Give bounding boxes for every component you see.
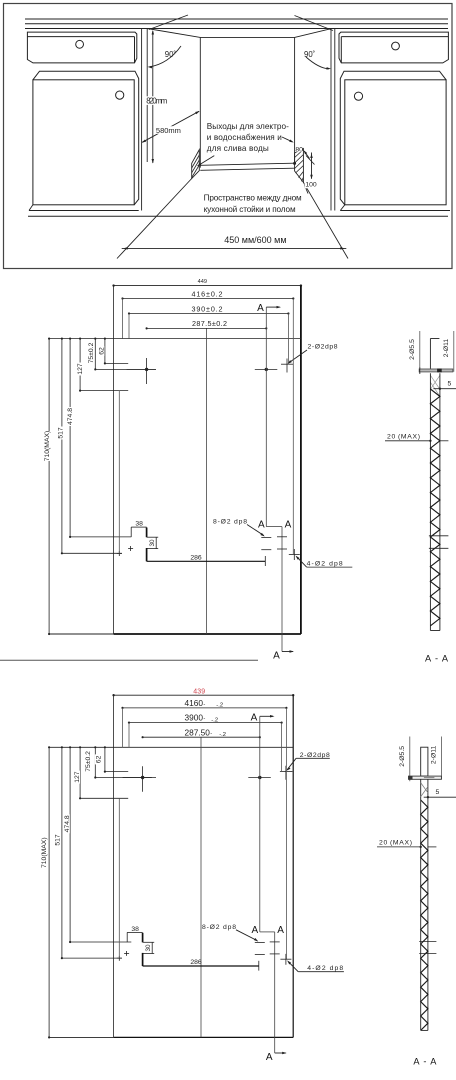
mid leader 4-Ø2dp8 bbox=[297, 557, 307, 568]
left cabinet drawer slab outline bbox=[27, 32, 136, 63]
mid rotated dim label 127 bbox=[76, 363, 83, 376]
bot ext line 416 left bbox=[122, 708, 124, 747]
bot A-A zigzag cross-section hatch bbox=[421, 800, 428, 1030]
svg-text:A: A bbox=[285, 520, 292, 531]
svg-text:5: 5 bbox=[436, 789, 440, 796]
bot dim 416 line bbox=[123, 707, 287, 709]
580mm leader bbox=[142, 111, 199, 142]
left cabinet toe kick bbox=[29, 210, 139, 212]
svg-text:A: A bbox=[251, 712, 258, 723]
mid section cut jog bbox=[266, 526, 282, 528]
leader text to right wall bbox=[282, 137, 292, 142]
bot A-A strip outline bbox=[420, 779, 422, 1030]
mid section cut column upper bbox=[265, 307, 267, 526]
svg-text:286: 286 bbox=[190, 554, 202, 561]
leader prostranstvo to wall foot bbox=[305, 185, 309, 194]
mid A-A zigzag cross-section hatch bbox=[430, 389, 440, 626]
bot bracket thick vertical upper bbox=[142, 933, 144, 943]
bot A-A ext line left bbox=[409, 737, 411, 782]
100 dimension line bbox=[311, 153, 313, 181]
bot vertical dim line 474.8 bbox=[69, 747, 71, 942]
bot rotated dim label 127 bbox=[73, 771, 80, 784]
svg-text:4-Ø2 dp8: 4-Ø2 dp8 bbox=[307, 561, 343, 568]
mid hole dot left 2-Ø2dp8 bbox=[145, 368, 148, 371]
separator line between drawings bbox=[0, 659, 258, 661]
bot A-A 20(MAX) line bbox=[377, 846, 421, 848]
bot vertical dim line 62 bbox=[104, 747, 106, 771]
mid vertical dim line 75&#177;0.2 bbox=[94, 339, 96, 370]
bot ext line 390 left bbox=[128, 723, 130, 748]
svg-text:390±0.2: 390±0.2 bbox=[192, 304, 223, 313]
mid A-A hole tick row bbox=[429, 535, 449, 537]
mid A-A ext line right bbox=[453, 331, 455, 372]
bot leader 2-Ø2dp8 bbox=[296, 757, 330, 759]
mid rotated dim label 517 bbox=[57, 427, 64, 440]
svg-text:3900--.2: 3900--.2 bbox=[185, 713, 219, 724]
bot leader 4-Ø2dp8 bbox=[288, 961, 298, 971]
niche back-right vertical bbox=[294, 37, 296, 164]
bot rotated dim label 62 bbox=[95, 754, 102, 764]
left cabinet door 3d outline bbox=[33, 71, 139, 205]
mid bracket thick vertical upper bbox=[146, 528, 148, 538]
mid rotated dim label 710(MAX) bbox=[43, 431, 50, 461]
mid stub 474.8 level bbox=[70, 536, 131, 538]
bot dim 30 bracket bbox=[151, 942, 153, 953]
right cabinet door 3d outline bbox=[340, 71, 446, 205]
svg-text:4-Ø2 dp8: 4-Ø2 dp8 bbox=[307, 965, 343, 972]
mid A-A mounting bar bbox=[419, 369, 453, 372]
mid hole cross left column bottom bbox=[118, 551, 120, 556]
svg-text:517: 517 bbox=[58, 427, 65, 439]
svg-text:A - A: A - A bbox=[413, 1057, 437, 1067]
mid stub 127 level bbox=[80, 390, 128, 392]
mid A-A 20(MAX) line bbox=[385, 440, 430, 442]
mid bracket thick vertical lower bbox=[146, 548, 148, 561]
svg-text:580mm: 580mm bbox=[156, 126, 181, 135]
mid ext line 390 left bbox=[128, 314, 130, 339]
left cabinet door front face bbox=[33, 80, 134, 205]
bot panel top edge / overall width dim line bbox=[114, 694, 294, 696]
mid A-A dim 5 line bbox=[433, 388, 456, 390]
left cabinet drawer front face lines bbox=[27, 36, 134, 38]
mid hole tick jog a bbox=[277, 536, 287, 538]
svg-text:A: A bbox=[251, 925, 258, 936]
svg-text:80: 80 bbox=[295, 147, 303, 154]
bot hole cross 8-group a bbox=[255, 942, 265, 944]
bot stub 127 level bbox=[80, 797, 128, 799]
svg-text:90˚: 90˚ bbox=[165, 50, 177, 59]
bot hole tick jog a bbox=[270, 941, 280, 943]
100 label bbox=[305, 179, 319, 189]
bot top reference line bbox=[49, 746, 293, 748]
bot A-A mounting bar bbox=[409, 776, 442, 779]
bot A-A ext line right bbox=[440, 737, 442, 780]
mid A-A hole tick row bbox=[429, 547, 449, 549]
mid vertical dim line 62 bbox=[104, 339, 106, 364]
countertop line 3 (bottom of worktop) bbox=[25, 28, 448, 30]
820mm label bbox=[145, 96, 168, 105]
bot dim 286 line bbox=[143, 965, 259, 967]
svg-text:75±0.2: 75±0.2 bbox=[88, 342, 95, 363]
svg-text:439: 439 bbox=[193, 689, 205, 696]
niche front-left edge outer bbox=[141, 29, 143, 211]
right cabinet side double line bbox=[330, 29, 332, 211]
bot hole dot right 2-Ø2dp8 bbox=[258, 776, 261, 779]
bot rotated dim label 710(MAX) bbox=[40, 838, 47, 868]
svg-text:2-Ø11: 2-Ø11 bbox=[430, 745, 437, 764]
bot hole cross 8-group b bbox=[255, 954, 265, 956]
bot stub 75 level through left hole bbox=[95, 777, 156, 779]
mid ext line 416 left bbox=[122, 299, 124, 339]
svg-text:30: 30 bbox=[145, 944, 152, 952]
svg-text:710(MAX): 710(MAX) bbox=[44, 431, 51, 462]
svg-text:38: 38 bbox=[131, 926, 139, 933]
svg-text:90˚: 90˚ bbox=[304, 50, 316, 59]
bot stub 62 level bbox=[105, 771, 128, 773]
bot ext column 390 right bbox=[281, 723, 283, 772]
svg-text:A: A bbox=[257, 303, 264, 314]
bot hole cross 4-group bbox=[280, 958, 291, 960]
right cabinet drawer slab outline bbox=[339, 32, 448, 63]
left wall foot hatched wedge bbox=[192, 150, 200, 179]
mid leader 8-Ø2dp8 bbox=[247, 525, 264, 536]
bot stub 517 level bbox=[62, 957, 122, 959]
580mm label bbox=[155, 126, 182, 134]
right cabinet toe kick bbox=[340, 210, 450, 212]
svg-text:20 (MAX): 20 (MAX) bbox=[387, 434, 420, 441]
svg-text:5: 5 bbox=[448, 381, 452, 388]
mid vertical dim line 710(MAX) bbox=[48, 339, 50, 634]
mid panel bottom edge (thick) bbox=[49, 633, 114, 635]
right wall foot hatched wedge bbox=[295, 149, 304, 183]
bot rotated dim label 474.8 bbox=[63, 814, 70, 833]
bot hole cross 62 level bbox=[280, 771, 293, 773]
80 label bbox=[296, 146, 303, 152]
mid hole tick jog b bbox=[277, 548, 287, 550]
bot hole tick jog b bbox=[270, 953, 280, 955]
bot panel bottom edge (thick) bbox=[49, 1036, 114, 1038]
bot section cut column lower bbox=[274, 932, 276, 1053]
bot A-A bracket rectangle bbox=[421, 747, 428, 776]
bot vertical dim line 710(MAX) bbox=[48, 747, 50, 1037]
svg-text:286: 286 bbox=[190, 959, 202, 966]
mid leader 2-Ø2dp8 bbox=[289, 350, 308, 363]
right 90 deg arc arrow bbox=[306, 57, 329, 69]
svg-text:474.8: 474.8 bbox=[64, 815, 71, 832]
mid panel centre line bbox=[205, 328, 207, 634]
bot left hole column bbox=[118, 798, 120, 958]
svg-text:кухонной стойки и полом: кухонной стойки и полом bbox=[204, 205, 296, 214]
niche floor band bbox=[200, 163, 294, 165]
bot bracket thick vertical lower bbox=[142, 953, 144, 966]
bot dim 38 line bbox=[127, 931, 142, 933]
countertop line 1 bbox=[25, 18, 448, 20]
bot hole cross near bracket bbox=[126, 951, 128, 956]
svg-text:4160--.2: 4160--.2 bbox=[185, 698, 224, 709]
mid hole cross 8-group a bbox=[261, 536, 271, 538]
mid panel left edge bbox=[113, 286, 115, 634]
mid A-A light diagonal hatch bbox=[430, 375, 440, 389]
svg-text:75±0.2: 75±0.2 bbox=[85, 751, 92, 772]
80 leader arrow bbox=[304, 151, 309, 158]
bot hole dot left 2-Ø2dp8 bbox=[141, 776, 144, 779]
mid dim 38 line bbox=[131, 526, 146, 528]
svg-text:287.50--.2: 287.50--.2 bbox=[185, 727, 226, 738]
mid A-A ext line left bbox=[419, 331, 421, 374]
mid section cut column lower bbox=[281, 527, 283, 652]
niche back-left vertical bbox=[199, 37, 201, 167]
svg-text:A: A bbox=[266, 1052, 273, 1063]
svg-text:для слива воды: для слива воды bbox=[207, 144, 269, 153]
bot section cut jog bbox=[260, 931, 275, 933]
mid hole cross 4-group bbox=[289, 553, 300, 555]
bot stub 474.8 level bbox=[70, 941, 131, 943]
mid rotated dim label 75&#177;0.2 bbox=[87, 341, 94, 365]
mid rotated dim label 62 bbox=[98, 346, 105, 356]
floor perspective diagonal right bbox=[303, 182, 348, 258]
bot panel right edge (thick) bbox=[292, 695, 294, 1037]
svg-text:62: 62 bbox=[96, 755, 103, 763]
svg-text:Выходы для электро-: Выходы для электро- bbox=[207, 122, 289, 131]
mid panel top edge / overall width dim line bbox=[114, 285, 301, 287]
bot rotated dim label 517 bbox=[54, 834, 61, 847]
bot leader 8-Ø2dp8 bbox=[236, 930, 257, 941]
bot A-A dim 5 line bbox=[424, 796, 456, 798]
right cabinet door knob bbox=[354, 92, 362, 100]
450/600 dimension line bbox=[122, 247, 347, 249]
mid panel right edge (thick) bbox=[300, 286, 302, 634]
mid left hole column bbox=[118, 391, 120, 554]
svg-text:287.5±0.2: 287.5±0.2 bbox=[192, 319, 227, 328]
svg-text:и водоснабжения и: и водоснабжения и bbox=[207, 133, 282, 142]
bot dim 390 line bbox=[129, 722, 282, 724]
mid hole cross 62 level bbox=[281, 363, 294, 365]
svg-text:416±0.2: 416±0.2 bbox=[192, 289, 223, 298]
niche receding top-right edge bbox=[295, 29, 331, 38]
floor perspective diagonal left bbox=[117, 179, 192, 259]
svg-text:2-Ø5.5: 2-Ø5.5 bbox=[409, 339, 416, 360]
svg-text:A: A bbox=[277, 925, 284, 936]
svg-text:2-Ø11: 2-Ø11 bbox=[443, 339, 450, 358]
mid dim 30 bracket bbox=[155, 537, 157, 548]
mid vertical dim line 474.8 bbox=[69, 339, 71, 537]
mid A-A strip outline bbox=[429, 373, 431, 630]
svg-text:2-Ø2dp8: 2-Ø2dp8 bbox=[308, 344, 338, 351]
mid rotated dim label 474.8 bbox=[66, 407, 73, 426]
mid hole dot right 2-Ø2dp8 bbox=[265, 368, 268, 371]
svg-text:450 мм/600 мм: 450 мм/600 мм bbox=[224, 235, 286, 245]
left cabinet drawer knob bbox=[76, 40, 84, 48]
svg-text:449: 449 bbox=[198, 279, 207, 285]
left cabinet door knob bbox=[116, 91, 124, 99]
left 90 deg extension diagonal bbox=[149, 15, 188, 30]
mid hole cross 8-group b bbox=[261, 549, 271, 551]
bot vertical dim line 75&#177;0.2 bbox=[94, 747, 96, 777]
mid ext column 416 right bbox=[292, 299, 294, 555]
svg-text:20 (MAX): 20 (MAX) bbox=[379, 840, 412, 847]
countertop line 2 bbox=[25, 23, 448, 25]
mid vertical dim line 517 bbox=[61, 339, 63, 554]
mid A-A top elbow bbox=[430, 338, 439, 340]
svg-text:474.8: 474.8 bbox=[67, 408, 74, 425]
bot A-A hole tick row bbox=[419, 953, 436, 955]
mid dim 416 line bbox=[123, 298, 294, 300]
mid ext column 390 right bbox=[287, 314, 289, 365]
mid stub 62 level bbox=[105, 362, 128, 364]
bot rotated dim label 75&#177;0.2 bbox=[84, 749, 91, 773]
bot panel left edge bbox=[113, 695, 115, 1037]
bot vertical dim line 127 bbox=[79, 747, 81, 798]
left 90 deg arc arrow bbox=[150, 46, 182, 67]
bot section cut column upper bbox=[259, 716, 261, 932]
right 90 deg extension diagonal bbox=[295, 16, 334, 31]
mid stub 75 level through left hole bbox=[95, 368, 156, 370]
820mm dimension line bbox=[152, 31, 154, 163]
svg-text:127: 127 bbox=[77, 363, 84, 375]
svg-text:38: 38 bbox=[135, 521, 143, 528]
leader text to left wall foot bbox=[198, 156, 214, 166]
svg-text:A: A bbox=[258, 520, 265, 531]
svg-text:A: A bbox=[273, 651, 280, 662]
svg-text:710(MAX): 710(MAX) bbox=[41, 837, 48, 868]
bot dim 287.5 line bbox=[143, 736, 260, 738]
svg-text:8-Ø2 dp8: 8-Ø2 dp8 bbox=[202, 924, 236, 931]
mid dim 390 line bbox=[129, 313, 288, 315]
mid dim 286 line bbox=[147, 560, 266, 562]
right cabinet door front face bbox=[345, 80, 446, 205]
section 1 frame border bbox=[4, 4, 453, 269]
bot A-A hole tick row bbox=[419, 941, 436, 943]
svg-text:517: 517 bbox=[55, 834, 62, 846]
right cabinet drawer knob bbox=[392, 42, 400, 50]
room floor line bbox=[28, 215, 448, 217]
svg-text:30: 30 bbox=[149, 539, 156, 547]
svg-text:127: 127 bbox=[74, 771, 81, 783]
bot A-A light diagonal hatch bbox=[421, 783, 428, 793]
mid vertical dim line 127 bbox=[79, 339, 81, 391]
svg-text:2-Ø5.5: 2-Ø5.5 bbox=[399, 746, 406, 767]
svg-text:8-Ø2 dp8: 8-Ø2 dp8 bbox=[213, 519, 247, 526]
bot panel centre line bbox=[200, 737, 202, 1037]
svg-text:A - A: A - A bbox=[425, 653, 449, 663]
bot hole cross left column bottom bbox=[118, 956, 120, 961]
niche front-left edge inner bbox=[146, 29, 148, 163]
bot ext column 416 right bbox=[285, 708, 287, 959]
bot vertical dim line 517 bbox=[61, 747, 63, 958]
niche back top edge bbox=[200, 36, 294, 38]
svg-text:62: 62 bbox=[99, 347, 106, 355]
mid stub 517 level bbox=[62, 552, 122, 554]
niche receding top-left edge bbox=[147, 29, 200, 38]
mid hole cross near bracket bbox=[130, 546, 132, 551]
mid dim 287.5 line bbox=[147, 327, 267, 329]
svg-text:Пространство между дном: Пространство между дном bbox=[204, 193, 302, 202]
right cabinet drawer front face lines bbox=[341, 36, 448, 38]
svg-text:820mm: 820mm bbox=[146, 97, 167, 106]
mid top reference line bbox=[49, 338, 301, 340]
svg-text:100: 100 bbox=[305, 182, 317, 189]
